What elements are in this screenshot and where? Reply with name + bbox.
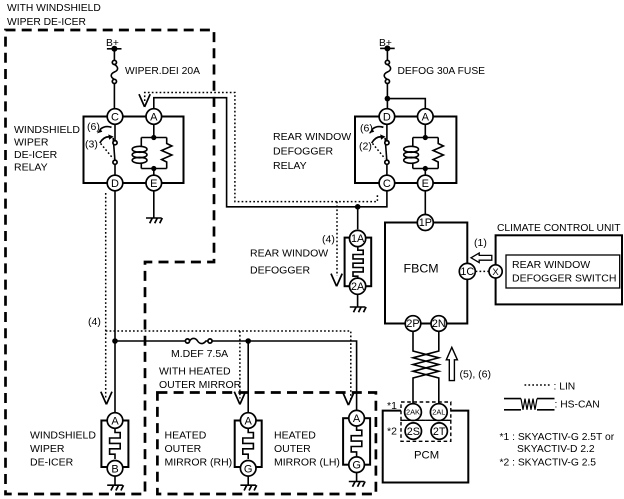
label (4) mirror rail	[88, 316, 101, 328]
terminal C left relay	[107, 109, 123, 125]
terminal D right relay	[379, 109, 395, 125]
coil/resistor parallel rails + nodes (left relay)	[141, 124, 166, 175]
node junction RH mirror feed	[245, 338, 251, 412]
svg-text:REAR WINDOW: REAR WINDOW	[512, 259, 590, 271]
wire left relay D down to M.DEF rail and de-icer	[114, 191, 116, 413]
windshield wiper de-icer element box	[101, 421, 128, 468]
dashed connector group box *1	[401, 402, 451, 420]
terminal 2N FBCM	[431, 316, 447, 332]
power B+ left	[106, 38, 122, 61]
svg-text:SKYACTIV-D 2.2: SKYACTIV-D 2.2	[517, 444, 595, 455]
svg-text:*2 : SKYACTIV-G 2.5: *2 : SKYACTIV-G 2.5	[500, 458, 597, 469]
arrow (3) left relay	[85, 134, 114, 150]
svg-text:WITH WINDSHIELD: WITH WINDSHIELD	[7, 3, 101, 14]
LIN dotted flow line relay C to relay A	[145, 93, 378, 202]
svg-text:DEFOGGER: DEFOGGER	[273, 146, 334, 158]
svg-text:(4): (4)	[88, 316, 101, 328]
legend note *1	[500, 432, 615, 455]
ground below mirror LH G	[349, 473, 365, 487]
terminal D left relay	[107, 175, 123, 191]
flow arrowhead at defogger	[331, 274, 342, 287]
svg-text:WIPER DE-ICER: WIPER DE-ICER	[7, 17, 86, 28]
terminal E right relay	[418, 175, 434, 191]
svg-text:RELAY: RELAY	[273, 160, 307, 172]
arrow (6) right relay	[360, 123, 383, 135]
svg-text:E: E	[150, 178, 157, 190]
relay box windshield wiper de-icer relay	[84, 117, 184, 184]
dashed connector group box *2	[401, 420, 451, 441]
LIN dotted branch to defogger ground side	[336, 202, 338, 276]
svg-text:*1: *1	[387, 400, 397, 412]
svg-text:2S: 2S	[407, 426, 420, 438]
flow arrowhead at mirror LH	[343, 392, 354, 405]
svg-text:*2: *2	[387, 426, 397, 438]
terminal 1A rear defogger	[350, 230, 366, 246]
svg-text:WINDSHIELD: WINDSHIELD	[14, 124, 80, 136]
svg-text:2T: 2T	[433, 426, 446, 438]
flow arrow (5),(6) up	[446, 347, 491, 380]
terminal 2A rear defogger	[350, 278, 366, 294]
terminal 1C FBCM	[459, 263, 475, 279]
ground below mirror RH G	[240, 476, 256, 490]
LIN dotted flow from relay D area	[105, 193, 107, 399]
twisted pair 2P/2N to PCM	[413, 331, 439, 403]
label HEATED OUTER MIRROR (RH)	[165, 430, 233, 469]
relay box rear window defogger relay	[355, 117, 456, 184]
svg-text:DE-ICER: DE-ICER	[30, 457, 74, 469]
terminal A right relay	[418, 109, 434, 125]
svg-text:(6): (6)	[360, 123, 373, 135]
svg-text:: HS-CAN: : HS-CAN	[555, 400, 600, 411]
relay resistor (right relay)	[433, 138, 443, 169]
relay switch contacts and blade (right relay)	[373, 124, 390, 175]
FBCM box	[385, 223, 467, 324]
svg-text:2P: 2P	[406, 318, 419, 330]
svg-text:A: A	[422, 112, 430, 124]
svg-text:REAR WINDOW: REAR WINDOW	[273, 131, 351, 143]
legend note *2	[500, 458, 597, 469]
svg-text:FBCM: FBCM	[404, 262, 439, 276]
svg-text:HEATED: HEATED	[274, 430, 316, 442]
svg-text:2N: 2N	[432, 318, 446, 330]
svg-text:WIPER: WIPER	[30, 443, 65, 455]
svg-text:(3): (3)	[85, 139, 98, 151]
relay coil (right relay)	[404, 138, 419, 169]
ground below rear defogger 2A	[350, 294, 366, 312]
LIN dotted rail to mirrors	[106, 331, 351, 399]
wire fuse to relay C	[113, 84, 115, 109]
svg-text:(5), (6): (5), (6)	[460, 369, 492, 381]
svg-text:WINDSHIELD: WINDSHIELD	[30, 430, 96, 442]
svg-text:D: D	[111, 178, 119, 190]
label WINDSHIELD WIPER DE-ICER RELAY	[14, 124, 80, 174]
svg-text:WIPER.DEI 20A: WIPER.DEI 20A	[125, 66, 200, 77]
label *2	[387, 426, 397, 438]
svg-text:DEFOGGER: DEFOGGER	[250, 265, 311, 277]
flow arrowhead at mirror RH	[234, 392, 245, 405]
connector X climate unit	[489, 265, 502, 278]
terminal 2AK PCM	[405, 404, 422, 421]
flow arrowhead at wiper de-icer	[101, 392, 112, 405]
node junction de-icer / M.DEF rail	[112, 338, 118, 344]
svg-text:(1): (1)	[474, 237, 487, 249]
fuse DEFOG 30A	[384, 60, 485, 83]
svg-text:2AL: 2AL	[432, 408, 445, 417]
label *1	[387, 400, 397, 412]
svg-text:2A: 2A	[351, 281, 365, 293]
svg-text:M.DEF 7.5A: M.DEF 7.5A	[171, 348, 228, 360]
svg-text:B: B	[111, 463, 118, 475]
dashed option box: with heated outer mirror	[157, 393, 376, 495]
label HEATED OUTER MIRROR (LH)	[274, 430, 340, 469]
svg-text:(4): (4)	[322, 234, 335, 246]
svg-text:OUTER: OUTER	[274, 443, 311, 455]
flow arrowhead into left relay A	[139, 94, 150, 107]
label WINDSHIELD WIPER DE-ICER element	[30, 430, 96, 469]
mirror LH heater resistor	[351, 426, 362, 456]
terminal 2P FBCM	[405, 316, 421, 332]
svg-text:MIRROR (RH): MIRROR (RH)	[165, 457, 233, 469]
label WITH WINDSHIELD WIPER DE-ICER	[7, 3, 101, 28]
svg-text:E: E	[422, 178, 429, 190]
svg-text:WITH HEATED: WITH HEATED	[159, 366, 231, 378]
svg-text:*1 : SKYACTIV-G 2.5T or: *1 : SKYACTIV-G 2.5T or	[500, 432, 615, 443]
svg-text:A: A	[150, 112, 158, 124]
arrow (2) right relay	[359, 134, 386, 152]
label WITH HEATED OUTER MIRROR	[159, 366, 242, 392]
rear window defogger grid resistor	[353, 247, 363, 279]
label (4) rear defogger	[322, 234, 335, 246]
svg-text:G: G	[244, 463, 253, 475]
terminal A left relay	[146, 109, 162, 125]
terminal 2T PCM	[431, 423, 447, 439]
relay coil (left relay)	[132, 138, 147, 169]
ground below left relay E	[146, 191, 162, 224]
svg-text:: LIN: : LIN	[554, 382, 576, 393]
legend LIN sample	[525, 382, 576, 393]
label CLIMATE CONTROL UNIT	[497, 223, 621, 234]
fuse WIPER.DEI 20A	[111, 60, 200, 83]
node junction at defog fuse output	[385, 96, 391, 102]
terminal A mirror LH	[349, 410, 365, 426]
mirror RH heater resistor	[243, 429, 254, 459]
ground below de-icer B	[107, 476, 123, 490]
relay switch contacts and blade (left relay)	[101, 124, 118, 175]
wire right relay E to FBCM 1P	[424, 191, 426, 215]
svg-text:WIPER: WIPER	[14, 137, 49, 149]
terminal B de-icer	[107, 461, 123, 477]
rear window defogger element box	[345, 238, 372, 287]
svg-text:OUTER: OUTER	[165, 443, 202, 455]
terminal G mirror LH	[349, 457, 365, 473]
svg-text:A: A	[353, 413, 361, 425]
relay resistor (left relay)	[162, 138, 172, 169]
svg-text:2AK: 2AK	[406, 408, 420, 417]
svg-text:MIRROR (LH): MIRROR (LH)	[274, 457, 340, 469]
terminal C right relay	[379, 175, 395, 191]
arrow (6) left relay	[87, 121, 112, 133]
svg-text:1P: 1P	[419, 217, 432, 229]
svg-text:PCM: PCM	[414, 450, 439, 462]
wire left relay A to right relay C	[154, 98, 387, 207]
climate control unit box	[496, 235, 622, 304]
dotted link 1C to X	[476, 270, 489, 272]
svg-text:A: A	[111, 416, 119, 428]
label REAR WINDOW DEFOGGER RELAY	[273, 131, 351, 172]
coil/resistor parallel rails + nodes (right relay)	[413, 124, 438, 175]
terminal A mirror RH	[240, 413, 256, 429]
svg-text:D: D	[383, 112, 391, 124]
node junction to rear defogger feed	[355, 204, 361, 229]
M.DEF rail wire	[115, 341, 357, 410]
flow arrow (1) into FBCM	[471, 237, 492, 263]
power B+ right	[379, 38, 395, 60]
svg-text:OUTER MIRROR: OUTER MIRROR	[159, 379, 242, 391]
svg-text:C: C	[111, 112, 119, 124]
svg-text:HEATED: HEATED	[165, 430, 207, 442]
de-icer heater resistor	[110, 429, 121, 459]
svg-text:(6): (6)	[87, 121, 100, 133]
svg-text:CLIMATE CONTROL UNIT: CLIMATE CONTROL UNIT	[497, 223, 621, 234]
terminal 2AL PCM	[430, 404, 447, 421]
svg-text:1A: 1A	[351, 233, 365, 245]
svg-text:X: X	[492, 267, 499, 278]
terminal A de-icer	[107, 413, 123, 429]
svg-text:1C: 1C	[460, 266, 474, 278]
svg-text:DE-ICER: DE-ICER	[14, 149, 58, 161]
rear window defogger switch box	[506, 255, 620, 288]
label REAR WINDOW DEFOGGER	[250, 248, 328, 277]
PCM box	[383, 411, 469, 483]
wire fuse to relay D and branch to A	[387, 84, 425, 109]
terminal E left relay	[146, 175, 162, 191]
svg-text:(2): (2)	[359, 141, 372, 153]
heated outer mirror LH element box	[343, 418, 370, 465]
svg-text:RELAY: RELAY	[14, 162, 48, 174]
svg-text:G: G	[352, 460, 361, 472]
fuse M.DEF 7.5A	[171, 338, 228, 360]
heated outer mirror RH element box	[235, 421, 262, 468]
terminal G mirror RH	[240, 461, 256, 477]
svg-text:C: C	[383, 178, 391, 190]
legend HS-CAN sample	[504, 399, 600, 411]
svg-text:A: A	[245, 416, 253, 428]
svg-text:DEFOG 30A FUSE: DEFOG 30A FUSE	[398, 66, 486, 77]
terminal 2S PCM	[405, 423, 421, 439]
svg-text:DEFOGGER SWITCH: DEFOGGER SWITCH	[512, 273, 616, 285]
svg-text:REAR WINDOW: REAR WINDOW	[250, 248, 328, 260]
dashed option box: with windshield wiper de-icer	[6, 30, 215, 494]
terminal 1P FBCM	[417, 215, 433, 231]
